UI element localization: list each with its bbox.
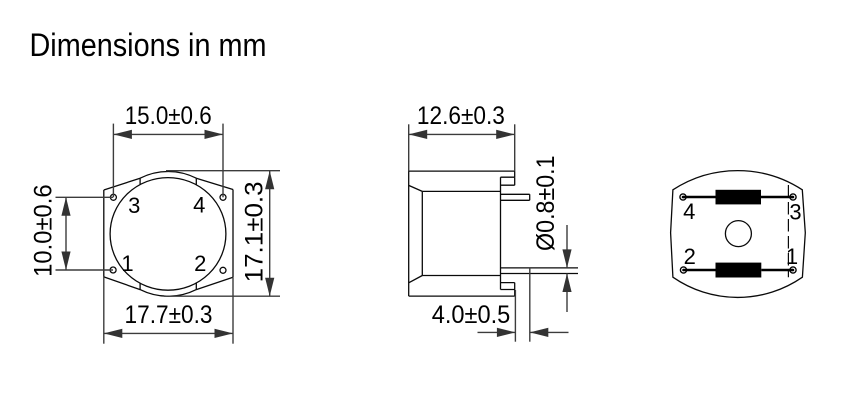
top view: pin hole 2 — [220, 267, 226, 273]
dim 17.7: dimension line — [104, 332, 233, 334]
svg-text:4: 4 — [683, 199, 695, 224]
top view: chamfer bottom-right — [196, 277, 233, 289]
side view: body top edge — [409, 170, 515, 172]
svg-text:12.6±0.3: 12.6±0.3 — [417, 102, 505, 130]
dim 0.8: lower arrowhead — [562, 274, 571, 293]
dim 17.1: dimension line — [269, 171, 271, 297]
dim 17.1: bottom extension line — [164, 295, 280, 297]
dim 4.0: right arrowhead — [530, 328, 549, 337]
bottom view: wire bar to pin3 — [761, 196, 793, 199]
top view: pin hole 4 — [220, 194, 226, 200]
dim 4.0: left extension line — [514, 290, 516, 342]
dim 10.0: top arrowhead — [61, 197, 70, 216]
side view: body bottom edge — [409, 295, 515, 297]
svg-text:17.7±0.3: 17.7±0.3 — [125, 301, 213, 329]
side view: base inner vertical edge — [500, 177, 502, 289]
svg-text:Ø0.8±0.1: Ø0.8±0.1 — [532, 155, 560, 251]
top view: pin hole 1 — [110, 267, 116, 273]
side view: top standoff — [501, 177, 515, 185]
svg-text:Dimensions in mm: Dimensions in mm — [30, 27, 267, 63]
dim 4.0: right dimension line — [530, 331, 569, 333]
dim 4.0: right extension line — [529, 268, 531, 342]
svg-text:2: 2 — [684, 244, 696, 269]
side view: core bottom edge — [422, 275, 500, 277]
top view: tick top-right — [195, 178, 197, 185]
dim 12.6: right arrowhead — [496, 130, 515, 139]
side view: bottom pin top line — [501, 267, 579, 269]
side view: core top edge — [422, 190, 500, 192]
dim 17.7: right extension line — [232, 277, 234, 344]
dim 17.1: top arrowhead — [265, 171, 274, 190]
top view: outer coil top arc — [140, 172, 196, 179]
top view: body left edge — [103, 190, 105, 277]
svg-text:4: 4 — [193, 193, 205, 218]
dim 10.0: bottom extension line — [56, 269, 114, 271]
side view: body left edge — [408, 171, 410, 296]
side view: core left edge — [421, 191, 423, 275]
top view: chamfer top-right — [196, 178, 233, 189]
bottom view: pin 1 dot — [792, 269, 795, 272]
dim 15.0: right arrowhead — [205, 130, 224, 139]
dim 17.1: bottom arrowhead — [265, 278, 274, 297]
top view: inner coil circle — [110, 178, 226, 291]
dim 10.0: dimension line — [65, 197, 67, 270]
side view: body right edge lower segment — [514, 290, 516, 297]
bottom view: body outline — [671, 171, 806, 298]
bottom view: pin 2 dot — [682, 269, 685, 272]
dim 15.0: left arrowhead — [113, 130, 131, 139]
bottom view: pin 3 circle — [790, 194, 796, 200]
side view: bottom standoff — [501, 283, 515, 290]
bottom view: wire bar to pin1 — [761, 269, 793, 272]
bottom view: center hole — [725, 221, 751, 247]
dim 12.6: left extension line — [408, 124, 410, 171]
bottom view: pin 3 dot — [792, 196, 795, 199]
svg-text:2: 2 — [194, 251, 206, 276]
top view: tick bottom-right — [195, 283, 197, 290]
svg-text:10.0±0.6: 10.0±0.6 — [30, 184, 58, 277]
dim 15.0: right extension line — [222, 124, 224, 198]
top view: chamfer bottom-left — [104, 277, 140, 290]
dim 0.8: lower dimension line — [566, 274, 568, 313]
dim 17.7: left arrowhead — [104, 329, 123, 338]
side view: chamfer bottom-left — [409, 276, 423, 283]
bottom view: hidden edge (dashed) — [787, 185, 789, 277]
dim 17.1: top extension line — [166, 170, 280, 172]
side view: top pin — [501, 194, 530, 200]
top view: tick bottom-left — [139, 283, 141, 290]
top view: body right edge — [232, 190, 234, 278]
svg-text:1: 1 — [121, 251, 133, 276]
bottom view: pin 4 dot — [682, 196, 685, 199]
side view: bottom pin bottom line — [501, 273, 579, 275]
svg-text:3: 3 — [789, 200, 801, 225]
dim 10.0: top extension line — [56, 196, 114, 198]
bottom view: pin 1 circle — [790, 267, 796, 273]
top view: outer coil bottom arc — [140, 290, 196, 297]
dim 15.0: left extension line — [112, 124, 114, 198]
bottom view: wire pin2 to bar — [684, 269, 716, 272]
dimension 15.0±0.6 — [113, 124, 223, 198]
dim 12.6: left arrowhead — [409, 130, 428, 139]
dim 17.7: right arrowhead — [215, 329, 234, 338]
side view: chamfer top-left — [409, 185, 423, 191]
top view: tick top-left — [139, 178, 141, 185]
bottom view: wire pin4 to bar — [683, 196, 716, 199]
dim 10.0: bottom arrowhead — [61, 252, 70, 271]
dim 4.0: left arrowhead — [497, 328, 516, 337]
bottom view: bottom winding bar — [716, 263, 762, 278]
side view: body right edge upper segment — [514, 171, 516, 177]
svg-text:1: 1 — [786, 244, 798, 269]
bottom view: pin 2 circle — [680, 267, 686, 273]
dim 12.6: dimension line — [409, 133, 515, 135]
dimension Ø0.8±0.1 — [566, 225, 568, 312]
dimension 17.7±0.3 — [104, 277, 233, 344]
svg-text:15.0±0.6: 15.0±0.6 — [125, 102, 212, 130]
top view: chamfer top-left — [104, 178, 140, 190]
svg-text:17.1±0.3: 17.1±0.3 — [241, 181, 269, 282]
bottom view: top winding bar — [716, 190, 762, 205]
dim 12.6: right extension line — [514, 124, 516, 171]
svg-text:4.0±0.5: 4.0±0.5 — [432, 301, 511, 329]
dimension 10.0±0.6 — [56, 197, 114, 270]
dimension 12.6±0.3 — [409, 124, 515, 171]
dim 0.8: upper dimension line — [566, 225, 568, 268]
dim 4.0: left dimension line — [478, 331, 516, 333]
bottom view: pin 4 circle — [680, 194, 796, 273]
svg-text:3: 3 — [128, 193, 140, 218]
dim 0.8: upper arrowhead — [562, 249, 571, 268]
dimension 17.1±0.3 — [164, 171, 280, 297]
top view: pin hole 3 — [110, 194, 116, 200]
dim 17.7: left extension line — [103, 277, 105, 344]
dimension 4.0±0.5 — [478, 268, 569, 342]
dim 15.0: dimension line — [113, 133, 223, 135]
